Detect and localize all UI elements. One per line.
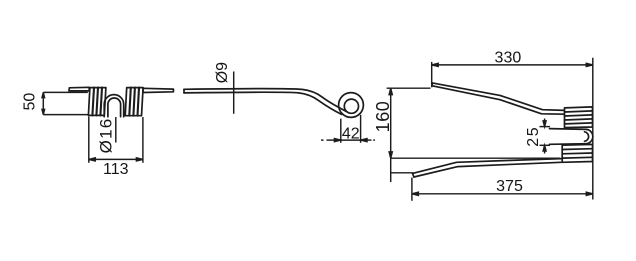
top view: upper arm lower edge	[432, 86, 565, 114]
front view: left arm end bar	[69, 87, 89, 91]
dimension 330: dimension line with arrows	[432, 63, 593, 66]
dimension 42: dimension line with outside arrows	[321, 139, 375, 142]
dimension 160: lower tip connector line	[391, 172, 414, 174]
svg-text:113: 113	[103, 161, 129, 178]
dimension 375: dimension line with arrows	[412, 192, 593, 195]
svg-text:375: 375	[496, 178, 523, 195]
dimension 330: right long extension line	[592, 58, 594, 200]
svg-text:50: 50	[22, 93, 39, 111]
top view: upper arm tip cap	[431, 83, 433, 86]
dimension 113: dimension line with arrows	[89, 158, 143, 161]
dimension 25: upper tick line	[540, 126, 551, 128]
front view: middle U-bend arch	[104, 95, 124, 117]
side view: coil outer circle	[339, 93, 364, 118]
dimension 113: right extension line	[142, 117, 144, 163]
side view: coil inner circle	[344, 99, 358, 113]
top view: U-bow inner arc	[585, 132, 589, 142]
top view: lower coil stack	[562, 144, 592, 162]
dimension 42: left extension line	[340, 119, 342, 143]
top view: lower arm tip cap	[413, 173, 414, 177]
dimension 160: bottom extension line	[391, 157, 560, 159]
front view: right coil stack	[125, 88, 143, 116]
svg-text:Ø9: Ø9	[214, 62, 231, 83]
dimension 330: left extension line	[431, 62, 433, 87]
top view: U-bow outer arc	[587, 129, 593, 143]
side view: tine bottom edge	[184, 92, 342, 114]
dimension 160: dimension line with arrows	[389, 88, 392, 182]
dimension 42: right extension line	[360, 115, 362, 143]
dimension 160: top extension line	[387, 87, 431, 89]
svg-text:42: 42	[342, 125, 360, 142]
dimension 50: bottom extension line	[43, 114, 88, 116]
dimension 375: left extension line	[411, 178, 413, 201]
top view: upper coil stack	[565, 107, 593, 128]
svg-text:25: 25	[525, 126, 542, 147]
dimension 25: dimension line with outside arrows	[543, 119, 546, 154]
svg-text:Ø16: Ø16	[97, 118, 116, 154]
top view: upper arm upper edge	[432, 83, 565, 111]
front view: left coil stack	[88, 88, 106, 116]
svg-text:330: 330	[495, 50, 522, 67]
top view: lower arm lower edge	[414, 162, 561, 177]
dimension 50: top extension line	[43, 91, 88, 93]
top view: U-bow band top edge	[550, 128, 587, 131]
svg-text:160: 160	[373, 101, 393, 133]
dimension 113: left extension line	[88, 117, 90, 163]
top view: U-bow band bottom edge	[550, 143, 587, 146]
dimension 25: lower tick line	[540, 144, 551, 146]
dimension O9: leader line	[233, 72, 235, 114]
top view: lower arm upper edge	[413, 159, 562, 174]
side view: tine top edge	[184, 89, 347, 112]
side view: tine tip cap	[183, 89, 185, 93]
dimension O16: leader line	[115, 117, 117, 143]
dimension 50: dimension line with arrows	[42, 92, 45, 114]
front view: right arm	[143, 88, 173, 92]
